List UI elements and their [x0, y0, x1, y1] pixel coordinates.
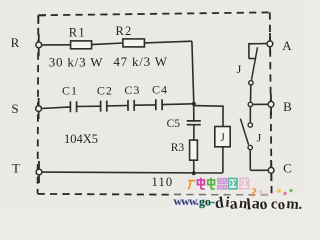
- watermark colorful letters: [214, 194, 303, 213]
- capacitor C4: [156, 99, 162, 110]
- border corner stub top-left: [38, 15, 46, 24]
- wire B junction to B terminal: [253, 103, 269, 105]
- wire C2 to C3: [107, 105, 128, 107]
- border solid stub at R: [38, 34, 40, 56]
- watermark logo char guang: [188, 181, 196, 189]
- svg-text:J: J: [257, 131, 262, 145]
- switch 2 top contact circle: [248, 123, 252, 127]
- wire node down to C5: [193, 104, 195, 121]
- svg-text:B: B: [283, 99, 292, 114]
- svg-text:R: R: [11, 35, 20, 50]
- watermark char dian 2 green: [208, 178, 215, 189]
- svg-text:C3: C3: [124, 83, 140, 97]
- svg-text:47 k/3 W: 47 k/3 W: [113, 54, 168, 69]
- wire C4 to node: [162, 103, 194, 106]
- bottom rail wire from T: [42, 171, 223, 174]
- terminal T: [36, 169, 42, 175]
- switch 1 contact circle: [249, 81, 253, 85]
- dashed border left: [37, 15, 40, 194]
- svg-text:go-: go-: [199, 195, 215, 209]
- wire C1 to C2: [77, 105, 101, 107]
- border solid stub at C: [270, 160, 272, 181]
- watermark char dian 1 magenta: [198, 178, 205, 189]
- svg-text:A: A: [282, 38, 292, 53]
- wire R1 to R2: [92, 43, 123, 45]
- dashed border bottom: [38, 194, 272, 195]
- capacitor C1: [70, 101, 76, 112]
- terminal R: [36, 42, 42, 48]
- svg-text:www.: www.: [174, 194, 199, 208]
- wire R terminal to R1: [42, 44, 71, 46]
- svg-text:R3: R3: [171, 142, 185, 154]
- terminal A: [267, 41, 273, 47]
- svg-text:J: J: [237, 62, 242, 76]
- switch 1 fixed stub: [249, 58, 256, 60]
- watermark char qi violet: [217, 179, 226, 189]
- svg-text:o: o: [277, 197, 286, 210]
- terminal C: [268, 167, 274, 173]
- watermark halo strip line2: [171, 195, 302, 211]
- dashed border top: [38, 12, 269, 15]
- capacitor C2: [101, 101, 107, 112]
- watermark orange squiggle: [252, 189, 255, 197]
- watermark colorful specks right: [277, 189, 292, 195]
- svg-text:C2: C2: [97, 83, 113, 97]
- wire C5 to R3: [193, 125, 195, 140]
- wire R3 to bottom rail: [193, 160, 195, 173]
- svg-text:T: T: [12, 160, 20, 175]
- watermark pink specks: [259, 190, 267, 195]
- wire A to switch corner: [249, 44, 267, 59]
- wire to C terminal: [250, 169, 268, 171]
- svg-text:R2: R2: [116, 24, 133, 38]
- switch 1 blade: [252, 47, 258, 80]
- svg-text:J: J: [220, 132, 225, 144]
- watermark char wang teal: [228, 178, 237, 188]
- wire switch2 down to C row: [249, 150, 251, 171]
- svg-text:R1: R1: [69, 25, 86, 39]
- watermark halo strip line1: [186, 177, 256, 192]
- terminal B: [268, 101, 274, 107]
- wire node to relay coil branch: [194, 106, 223, 127]
- svg-text:C1: C1: [62, 84, 78, 98]
- border solid stub at S: [38, 98, 40, 119]
- svg-text:a: a: [229, 195, 238, 210]
- dashed border right: [270, 12, 272, 195]
- border solid stub at A: [269, 33, 271, 54]
- wire R2 to top-right corner: [144, 41, 192, 43]
- wire switch1 to B junction: [250, 85, 252, 102]
- wire C3 to C4: [134, 104, 156, 106]
- border solid stub at B: [270, 94, 272, 115]
- relay coil J box: [215, 127, 230, 147]
- switch 2 pivot circle: [248, 145, 252, 149]
- svg-text:C4: C4: [152, 83, 168, 97]
- watermark char wang faint pink: [240, 178, 249, 188]
- svg-text:S: S: [11, 101, 18, 116]
- capacitor C5: [187, 121, 201, 125]
- junction node upper: [192, 102, 196, 106]
- wire B junction down: [249, 107, 251, 123]
- svg-text:30 k/3 W: 30 k/3 W: [49, 55, 104, 70]
- wire S terminal to C1: [41, 107, 70, 109]
- resistor R2: [123, 39, 144, 47]
- B junction circle: [248, 102, 252, 106]
- resistor R1: [71, 41, 92, 49]
- capacitor C3: [128, 100, 134, 111]
- border solid stub at T: [38, 161, 40, 183]
- wire coil J to bottom rail: [222, 147, 224, 173]
- resistor R3: [190, 140, 198, 160]
- svg-text:C: C: [283, 161, 292, 176]
- svg-text:C5: C5: [167, 118, 181, 130]
- svg-text:104X5: 104X5: [64, 132, 98, 146]
- junction node lower: [192, 171, 196, 175]
- svg-text:110: 110: [151, 175, 173, 189]
- terminal S: [36, 106, 42, 112]
- switch 2 blade: [240, 119, 248, 145]
- wire vertical down to node: [192, 41, 194, 104]
